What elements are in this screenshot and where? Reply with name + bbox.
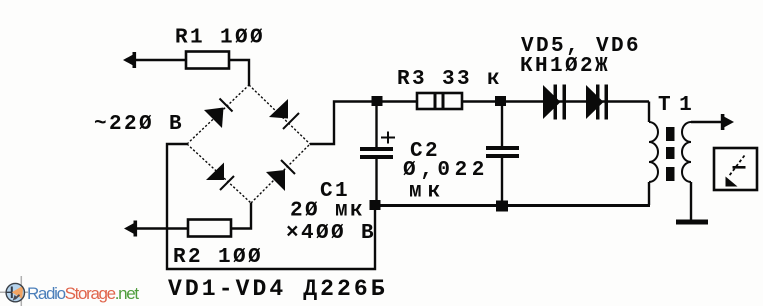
junction node C1 top [372,96,383,106]
junction node C1 bottom [370,200,381,210]
diode VD4 (lower-right) [266,170,285,191]
bridge edge T-R [249,85,310,144]
wire [229,60,249,85]
wire to transformer primary [648,102,650,123]
resistor R3 [417,93,462,109]
logo emitter arrow [13,295,20,301]
logo transistor circle fill [6,283,24,301]
svg-text:VD1-VD4 Д226Б: VD1-VD4 Д226Б [168,276,388,302]
bridge edge L-B [187,144,251,203]
wire top rail right of R3 [462,100,649,102]
wire [136,227,188,229]
diode VD1 (upper-left) [204,108,224,129]
capacitor C2 [501,102,503,147]
polarity plus of C1 [381,137,395,139]
resistor R2 [188,220,231,237]
bridge edge L-T [187,85,249,144]
svg-text:КН1Ø2Ж: КН1Ø2Ж [520,55,610,78]
input terminal arrow bottom [124,221,137,237]
transformer core [666,127,675,181]
transformer T1 secondary winding [682,122,691,182]
wire bridge bottom to R2 [231,203,251,229]
lightning arrow [729,156,745,177]
diode VD2 (upper-right) [269,99,288,119]
dinistor VD6 [586,85,608,120]
output arrow [721,114,734,130]
dinistor VD5 [543,85,566,120]
svg-text:T1: T1 [658,94,700,117]
logo base lead [6,291,12,293]
diode VD3 (lower-left) [206,163,224,181]
svg-text:×4ØØ В: ×4ØØ В [286,222,376,245]
svg-text:Ø,022: Ø,022 [403,159,489,182]
logo crosshair [0,291,28,293]
svg-text:~22Ø В: ~22Ø В [94,113,184,136]
spark gap box [714,148,757,190]
junction node C2 bottom [496,201,508,212]
svg-text:мк: мк [409,181,446,204]
wire bypass left/bottom loop [167,144,375,269]
bridge edge B-R [251,144,310,203]
svg-text:R1 1ØØ: R1 1ØØ [175,27,265,50]
svg-text:RadioStorage.net: RadioStorage.net [27,284,139,303]
wire secondary output [691,121,722,123]
logo orange triangle [12,286,23,299]
wire bridge right to top rail [310,102,417,145]
junction node C2 top [495,96,506,106]
input terminal arrow top [123,52,136,68]
transformer T1 primary winding [649,122,658,182]
capacitor C1 [375,102,377,148]
bottom rail [375,204,650,207]
ground [676,220,708,225]
svg-text:2Ø мк: 2Ø мк [290,200,365,223]
wire [135,59,186,61]
resistor R1 [186,52,229,69]
logo circle outline [6,283,24,301]
svg-text:R2 1ØØ: R2 1ØØ [173,246,263,269]
svg-text:R3 33 к: R3 33 к [397,68,502,91]
